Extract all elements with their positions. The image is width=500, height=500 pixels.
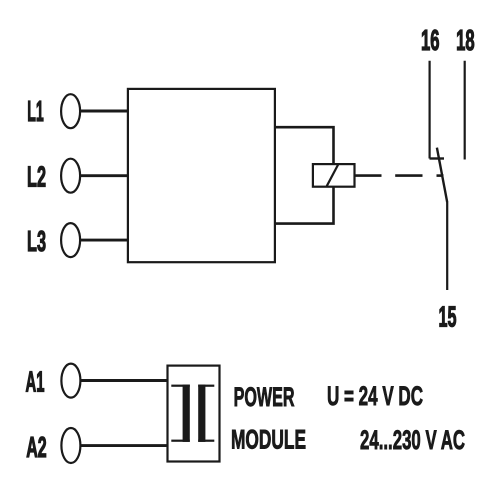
terminal circle A1	[61, 364, 80, 398]
svg-text:POWER: POWER	[234, 382, 295, 412]
svg-text:A2: A2	[26, 432, 47, 464]
terminal circle L3	[61, 223, 80, 257]
power module box	[168, 366, 220, 462]
wire from block to relay coil bottom	[275, 187, 334, 224]
wire L2 to relay box	[80, 174, 128, 177]
svg-text:L2: L2	[27, 162, 46, 194]
terminal circle A2	[61, 428, 80, 463]
wire terminal 18	[464, 61, 466, 160]
dashed mechanical link	[355, 174, 444, 177]
wire from block to relay coil top	[275, 127, 334, 164]
monitoring relay block U1	[128, 89, 275, 262]
relay coil K1	[313, 164, 355, 187]
transformer T1 secondary winding	[198, 385, 214, 442]
svg-text:18: 18	[456, 25, 475, 57]
svg-text:24...230 V AC: 24...230 V AC	[360, 425, 465, 455]
wire A1 to power module	[80, 379, 167, 382]
svg-text:U = 24 V DC: U = 24 V DC	[327, 381, 423, 411]
fixed contact seat of 16	[430, 157, 445, 159]
terminal circle L1	[61, 94, 80, 128]
transformer T1 primary winding	[171, 385, 190, 442]
svg-text:15: 15	[439, 301, 457, 333]
svg-text:16: 16	[421, 25, 440, 57]
svg-text:A1: A1	[26, 367, 45, 399]
wire L1 to relay box	[80, 110, 128, 113]
svg-text:MODULE: MODULE	[231, 425, 306, 455]
svg-text:L3: L3	[27, 226, 46, 258]
wire terminal 15	[446, 202, 448, 290]
wire terminal 16	[429, 61, 431, 159]
svg-text:L1: L1	[27, 96, 44, 128]
wire A2 to power module	[80, 444, 167, 447]
terminal circle L2	[61, 159, 80, 193]
wire L3 to relay box	[80, 239, 128, 242]
contact blade (NC contact 15-16)	[437, 148, 447, 203]
